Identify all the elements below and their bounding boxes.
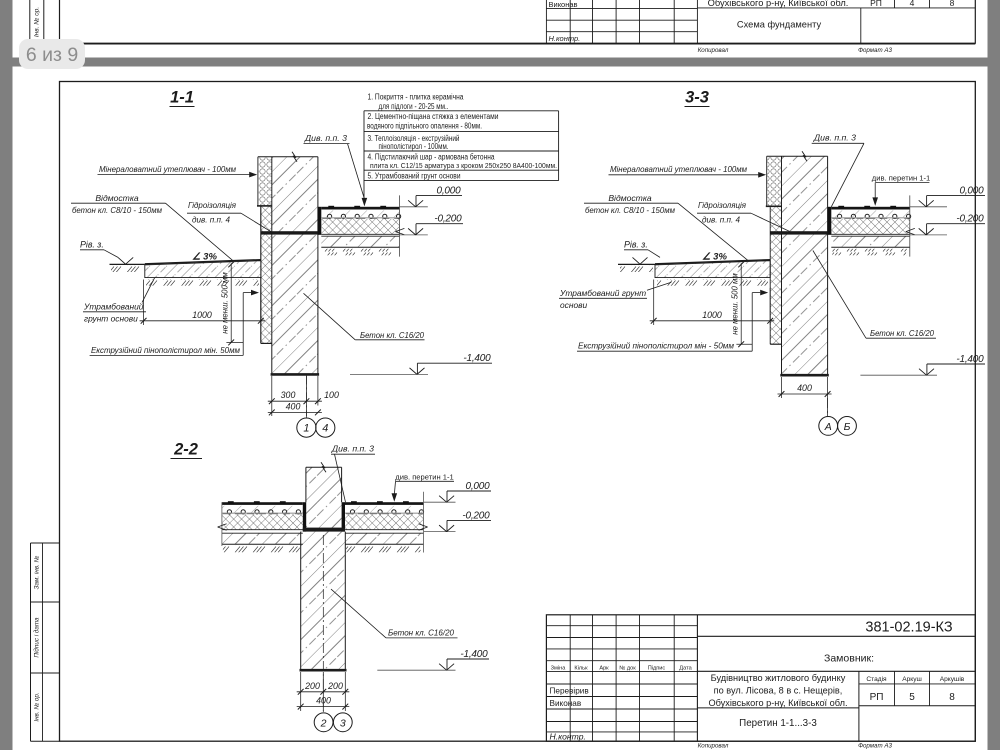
svg-text:3-3: 3-3 — [685, 89, 709, 107]
svg-text:плита кл. С12/15 арматура з: плита кл. С12/15 арматура з кроком 250х2… — [370, 161, 557, 170]
svg-text:Інв. № ор.: Інв. № ор. — [33, 692, 40, 721]
svg-text:0,000: 0,000 — [465, 481, 490, 492]
svg-text:Бетон кл. С16/20: Бетон кл. С16/20 — [388, 628, 454, 638]
svg-text:Утрамбований: Утрамбований — [83, 302, 144, 312]
svg-text:Екструзійний пінополістирол м: Екструзійний пінополістирол мін - 50мм — [578, 341, 734, 351]
section 3-3 axis bubble B — [838, 417, 857, 436]
svg-text:Див. п.п. 3: Див. п.п. 3 — [304, 133, 347, 143]
title block left rows — [546, 625, 697, 627]
svg-text:див. п.п. 4: див. п.п. 4 — [702, 214, 740, 224]
section 3-3 ground hatch under floor — [832, 249, 907, 256]
svg-text:300: 300 — [281, 390, 296, 400]
svg-text:Формат А3: Формат А3 — [858, 47, 892, 54]
section 3-3 level mark -1.400 — [860, 374, 937, 376]
previous page title block rows — [546, 8, 697, 10]
svg-text:Будівництво житлового будинку: Будівництво житлового будинку — [711, 673, 846, 683]
section 1-1 XPS perimeter strip — [261, 206, 272, 343]
svg-text:2: 2 — [320, 717, 327, 729]
svg-text:4: 4 — [910, 0, 915, 8]
section 2-2 foundation wall concrete — [301, 532, 346, 671]
svg-text:Копировал: Копировал — [698, 47, 729, 54]
section 1-1 floor break arrow — [395, 228, 404, 231]
svg-text:400: 400 — [286, 402, 301, 412]
svg-text:для підлоги - 20-25 мм..: для підлоги - 20-25 мм.. — [379, 102, 449, 111]
svg-text:Див. п.п. 3: Див. п.п. 3 — [813, 133, 856, 143]
previous page frame right line — [974, 0, 976, 44]
section 3-3 foundation wall concrete — [782, 156, 828, 375]
section 3-3 horizontal waterproofing band — [770, 231, 831, 234]
svg-text:Перетин 1-1...3-3: Перетин 1-1...3-3 — [739, 718, 817, 729]
section 2-2 left slab tile joint ticks — [228, 501, 234, 504]
svg-text:-0,200: -0,200 — [956, 214, 984, 225]
svg-text:Відмостка: Відмостка — [608, 193, 652, 203]
viewer page badge 6 of 9 — [19, 39, 85, 69]
svg-text:не менш. 500 мм: не менш. 500 мм — [221, 272, 230, 334]
section 3-3 floor screed band with heating pipes — [831, 210, 910, 217]
section 1-1 dimension 400 — [268, 411, 322, 413]
svg-text:бетон кл. С8/10 - 150мм: бетон кл. С8/10 - 150мм — [585, 205, 675, 215]
section 1-1 wall bottom edge — [271, 373, 320, 376]
section 2-2 right slab bedding concrete band — [345, 533, 424, 544]
section 2-2 axis bubble 3 — [333, 713, 352, 732]
section 2-2 level mark -1.400 — [377, 669, 455, 671]
title block left columns — [569, 615, 571, 741]
section 2-2 left slab ground hatch — [223, 546, 300, 553]
svg-text:5. Утрамбований грунт основи: 5. Утрамбований грунт основи — [368, 172, 461, 181]
previous page frame left line — [59, 0, 61, 44]
section 3-3 floor tile joint ticks — [838, 206, 844, 209]
section 2-2 right slab tile joint ticks — [351, 501, 357, 504]
svg-text:РП: РП — [870, 0, 882, 8]
section 1-1 dimension 1000 — [143, 280, 145, 326]
svg-text:Див. п.п. 3: Див. п.п. 3 — [331, 443, 374, 453]
svg-text:1-1: 1-1 — [170, 89, 194, 107]
svg-text:Бетон кл. С16/20: Бетон кл. С16/20 — [360, 330, 424, 340]
svg-text:8: 8 — [950, 0, 955, 8]
svg-text:5: 5 — [909, 692, 915, 703]
title block stage columns — [858, 671, 860, 741]
svg-text:1000: 1000 — [702, 310, 722, 320]
svg-text:-0,200: -0,200 — [434, 214, 462, 225]
section 3-3 wall top edge with break — [767, 155, 828, 157]
section 1-1 floor screed band with heating pipes — [321, 210, 399, 217]
section 1-1 wall top edge with break — [258, 156, 318, 158]
svg-text:Рів. з.: Рів. з. — [80, 240, 104, 250]
section 2-2 axis bubble 2 — [314, 713, 333, 732]
svg-text:Арк: Арк — [599, 665, 609, 671]
section 2-2 right slab tile+screed dark band — [345, 502, 424, 505]
section 1-1 blind area (vidmostka) — [145, 261, 261, 278]
section 3-3 blind area (vidmostka) — [655, 261, 770, 278]
section 3-3 ground line left — [618, 263, 655, 265]
section 3-3 wall bottom edge — [780, 374, 829, 377]
section 1-1 ground hatch under floor — [322, 249, 396, 256]
section 3-3 floor right cut edge — [909, 195, 911, 256]
section 2-2 axis line — [322, 535, 324, 713]
previous page left margin boxes — [29, 0, 31, 44]
svg-text:∠ 3%: ∠ 3% — [192, 252, 217, 263]
section 3-3 dimension 400 — [781, 377, 783, 398]
section 2-2 vertical waterproofing left — [303, 502, 306, 531]
section 1-1 axis line — [305, 374, 307, 418]
title block outer border — [546, 615, 975, 741]
section 2-2 wall between floor layers — [306, 502, 342, 531]
section 1-1 ground hatch below ground line — [111, 266, 145, 273]
svg-text:Відмостка: Відмостка — [95, 193, 139, 203]
svg-text:Інв. № ор.: Інв. № ор. — [34, 7, 41, 37]
section 3-3 floor XPS insulation band — [831, 219, 910, 234]
svg-text:6 из 9: 6 из 9 — [26, 44, 78, 66]
svg-text:2-2: 2-2 — [173, 441, 198, 459]
section 2-2 level mark -0.200 — [424, 531, 456, 533]
section 1-1 ground line left — [110, 263, 145, 265]
svg-text:400: 400 — [797, 383, 812, 393]
svg-text:Обухівського р-ну, Київської о: Обухівського р-ну, Київської обл. — [708, 698, 847, 708]
section 2-2 dimension 400 — [297, 706, 350, 708]
section 2-2 dimension 200 200 — [300, 672, 302, 711]
svg-text:Н.контр.: Н.контр. — [549, 34, 581, 43]
svg-text:Формат А3: Формат А3 — [858, 742, 892, 749]
section 1-1 floor right cut edge — [399, 195, 401, 256]
section 1-1 floor bedding concrete band — [321, 236, 399, 247]
section 3-3 level mark 0.000 — [910, 206, 947, 208]
svg-text:Підпис і дата: Підпис і дата — [32, 617, 40, 658]
svg-text:Аркуш: Аркуш — [902, 676, 922, 683]
section 2-2 left slab screed band with pipes — [222, 506, 303, 513]
svg-text:Стадія: Стадія — [866, 675, 887, 683]
section 1-1 mineral wool strip — [258, 157, 272, 206]
section 3-3 level mark -0.200 — [910, 234, 947, 236]
svg-text:0,000: 0,000 — [959, 186, 984, 197]
svg-text:Екструзійний пінополістирол мі: Екструзійний пінополістирол мін. 50мм — [91, 345, 240, 355]
svg-text:2. Цементно-піщана стяжка з ел: 2. Цементно-піщана стяжка з елементами — [368, 112, 499, 121]
svg-text:Бетон кл. С16/20: Бетон кл. С16/20 — [870, 328, 934, 338]
section 2-2 horizontal waterproofing band — [303, 528, 345, 532]
section 3-3 axis line — [827, 398, 829, 417]
section 1-1 notes leader arrow to floor — [362, 198, 368, 207]
svg-text:∠ 3%: ∠ 3% — [702, 252, 727, 263]
previous page frame bottom line — [60, 43, 976, 45]
svg-text:грунт основи: грунт основи — [84, 314, 138, 324]
svg-text:Кільк: Кільк — [574, 665, 588, 671]
svg-text:пінополістирол - 100мм.: пінополістирол - 100мм. — [379, 142, 449, 151]
svg-text:Обухівського р-ну, Київської о: Обухівського р-ну, Київської обл. — [708, 0, 849, 8]
svg-text:200: 200 — [327, 681, 343, 691]
section 3-3 vertical waterproofing at wall-floor joint — [828, 207, 832, 235]
svg-text:РП: РП — [870, 692, 884, 703]
svg-text:Рів. з.: Рів. з. — [624, 240, 648, 250]
svg-text:Копировал: Копировал — [698, 742, 729, 749]
section 2-2 left slab bedding concrete band — [222, 533, 303, 544]
previous page stage cells partial — [894, 0, 896, 8]
svg-text:Утрамбований грунт: Утрамбований грунт — [559, 288, 646, 298]
svg-text:8: 8 — [949, 692, 955, 703]
section 1-1 level mark 0.000 — [400, 206, 428, 208]
section 2-2 right slab screed band with pipes — [345, 506, 424, 513]
svg-text:див. перетин 1-1: див. перетин 1-1 — [395, 472, 453, 481]
svg-text:Дата: Дата — [679, 665, 692, 671]
section 2-2 right slab cut edge — [423, 492, 425, 553]
svg-text:100: 100 — [324, 390, 339, 400]
section 1-1 level mark -1.400 — [350, 373, 428, 375]
svg-text:Гідроізоляція: Гідроізоляція — [698, 200, 746, 210]
svg-text:-1,400: -1,400 — [463, 353, 491, 364]
section 3-3 ground hatch below ground line — [620, 266, 653, 273]
section 1-1 axis bubble 1 — [297, 418, 316, 437]
svg-text:-1,400: -1,400 — [460, 649, 488, 660]
svg-text:1000: 1000 — [192, 310, 212, 320]
svg-text:див. п.п. 4: див. п.п. 4 — [192, 214, 230, 224]
section 2-2 right slab ground hatch — [346, 546, 421, 553]
svg-text:Н.контр.: Н.контр. — [550, 732, 586, 742]
svg-text:основи: основи — [560, 300, 587, 310]
section 1-1 vertical dimension 500 — [230, 263, 232, 342]
svg-text:Підпис: Підпис — [648, 665, 666, 671]
svg-text:Мінераловатний утеплювач - 100: Мінераловатний утеплювач - 100мм — [99, 164, 236, 174]
svg-text:Зам. інв. №: Зам. інв. № — [32, 555, 40, 589]
svg-text:3: 3 — [340, 717, 346, 729]
left margin boxes of main page — [30, 543, 32, 741]
svg-text:№ док: № док — [619, 665, 636, 671]
section 2-2 vertical waterproofing right — [342, 502, 345, 531]
section 2-2 wall top edge with break — [306, 466, 342, 468]
svg-text:Гідроізоляція: Гідроізоляція — [188, 200, 236, 210]
svg-text:381-02.19-КЗ: 381-02.19-КЗ — [865, 620, 952, 636]
svg-text:Виконав: Виконав — [550, 699, 582, 708]
section 3-3 floor bedding concrete band — [831, 236, 910, 247]
section 2-2 left slab tile+screed dark band — [222, 502, 303, 505]
section 2-2 left slab XPS band — [222, 514, 303, 529]
previous page sheet (partial, top) — [13, 0, 988, 58]
svg-text:Мінераловатний утеплювач - 100: Мінераловатний утеплювач - 100мм — [610, 164, 747, 174]
svg-text:Перевірив: Перевірив — [550, 686, 589, 695]
section 1-1 vertical waterproofing at wall-floor joint — [318, 207, 321, 235]
svg-text:-1,400: -1,400 — [956, 354, 984, 365]
section 1-1 floor XPS insulation band — [321, 219, 399, 234]
svg-text:0,000: 0,000 — [436, 186, 461, 197]
svg-text:4: 4 — [322, 423, 328, 435]
section 2-2 wall above floor — [306, 467, 342, 502]
svg-text:А: А — [824, 421, 832, 433]
svg-text:не менш. 500 мм: не менш. 500 мм — [731, 273, 740, 335]
svg-text:по вул. Лісова, 8 в с. Нещерів: по вул. Лісова, 8 в с. Нещерів, — [714, 686, 843, 696]
section 3-3 mineral wool strip — [767, 157, 782, 207]
svg-text:Виконав: Виконав — [549, 0, 578, 9]
section 3-3 floor tile+screed dark band — [831, 207, 910, 210]
title block document number cell — [697, 635, 975, 637]
svg-text:1. Покриття - плитка керамічна: 1. Покриття - плитка керамічна — [368, 93, 465, 102]
svg-text:Схема фундаменту: Схема фундаменту — [737, 20, 822, 30]
svg-text:водяного підпільного опалення: водяного підпільного опалення - 80мм. — [367, 122, 482, 131]
svg-text:-0,200: -0,200 — [462, 510, 490, 521]
svg-text:Аркушів: Аркушів — [940, 675, 965, 683]
previous page title block columns — [545, 0, 547, 44]
section 1-1 horizontal waterproofing band — [261, 231, 321, 234]
svg-text:Замовник:: Замовник: — [824, 653, 874, 665]
section 3-3 vertical dimension 500 — [740, 263, 742, 344]
section 2-2 level mark 0.000 — [424, 501, 456, 503]
svg-text:Зміна: Зміна — [551, 665, 567, 671]
section 3-3 floor break arrow — [906, 228, 915, 231]
svg-text:бетон кл. С8/10 - 150мм: бетон кл. С8/10 - 150мм — [72, 205, 162, 215]
section 1-1 ground hatch below blind area — [146, 279, 259, 286]
section 3-3 axis bubble A — [819, 417, 838, 436]
svg-text:див. перетин 1-1: див. перетин 1-1 — [872, 174, 930, 183]
svg-text:Б: Б — [844, 421, 851, 433]
section 2-2 right slab XPS band — [345, 514, 424, 529]
svg-text:1: 1 — [303, 423, 309, 435]
section 1-1 dimension 300 — [271, 376, 273, 416]
section 1-1 level mark -0.200 — [400, 234, 428, 236]
section 2-2 foundation bottom edge — [300, 669, 347, 672]
section 3-3 XPS perimeter strip — [770, 207, 781, 344]
section 3-3 ground hatch below blind area — [657, 279, 768, 286]
section 1-1 foundation wall concrete — [272, 157, 318, 375]
section 3-3 dimension 1000 — [653, 280, 655, 326]
section 2-2 left slab cut edge — [221, 502, 223, 546]
section 1-1 notes box borders — [363, 111, 365, 200]
svg-text:200: 200 — [304, 681, 320, 691]
section 1-1 axis bubble 4 — [316, 418, 335, 437]
section 1-1 floor tile+screed dark band — [321, 207, 399, 210]
section 1-1 floor tile joint ticks — [328, 206, 334, 209]
